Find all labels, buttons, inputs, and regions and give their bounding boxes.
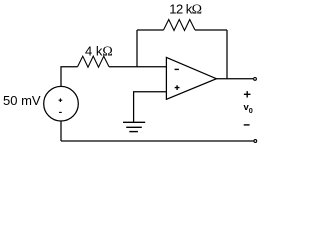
label: output v0 (244, 102, 253, 115)
voltage source VS circle (44, 86, 79, 121)
op-amp U1 triangle (166, 57, 216, 99)
wire: bottom rail to output terminal (61, 140, 254, 142)
wire: feedback top left segment (137, 29, 164, 31)
wire: feedback right vertical down to output node (226, 30, 228, 79)
resistor R1 4 kOhm zigzag (78, 56, 110, 67)
label: output plus (244, 91, 251, 97)
op-amp inverting input marker - (175, 68, 179, 70)
label: R2 value 12 kOhm (169, 2, 201, 18)
wire: R1 to op-amp inverting input through node A (109, 66, 166, 68)
resistor R2 12 kOhm zigzag (164, 20, 196, 31)
source polarity plus (59, 98, 63, 102)
ground symbol (123, 122, 145, 131)
wire: non-inverting input to ground stem corner (134, 92, 167, 123)
wire: feedback top right segment (195, 29, 227, 31)
terminal: output negative (open circle) (254, 140, 257, 143)
label: output minus (244, 124, 250, 126)
svg-text:50 mV: 50 mV (3, 93, 41, 108)
terminal: output positive (open circle) (254, 78, 257, 81)
label: R1 value 4 kOhm (85, 44, 113, 60)
wire: feedback left vertical from node A (136, 30, 138, 67)
wire: op-amp output to output terminal (216, 78, 253, 80)
op-amp non-inverting input marker + (175, 85, 180, 90)
wire: source top lead up and right to R1 (61, 67, 78, 88)
label: source value 50 mV (3, 93, 41, 108)
svg-text:12 kΩ: 12 kΩ (169, 2, 201, 18)
source polarity minus (59, 111, 62, 113)
svg-text:4 kΩ: 4 kΩ (85, 44, 113, 60)
wire: source bottom lead (60, 121, 62, 141)
